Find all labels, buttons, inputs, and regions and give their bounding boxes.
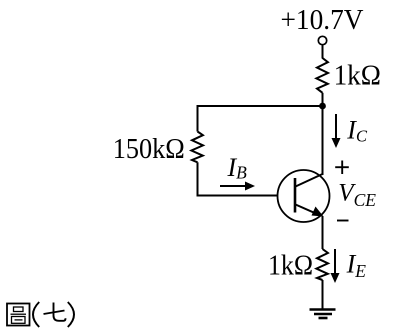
svg-text:IE: IE <box>346 250 367 282</box>
resistor RE 1kOhm (emitter) <box>316 249 328 280</box>
caption glyph 七 <box>44 303 66 321</box>
caption paren ) <box>68 302 74 327</box>
supply terminal <box>318 36 326 44</box>
caption paren ( <box>33 302 39 327</box>
wire: emitter down to RE <box>322 216 324 249</box>
svg-text:IB: IB <box>227 153 248 182</box>
wire: R1 to node <box>322 93 324 106</box>
wire: node to left branch (top horizontal) <box>197 105 323 107</box>
caption glyph 圖 <box>7 304 30 326</box>
wire: RE to ground <box>322 280 324 310</box>
svg-text:150kΩ: 150kΩ <box>113 134 185 165</box>
wire: terminal to R1 <box>322 45 324 59</box>
svg-text:1kΩ: 1kΩ <box>334 61 381 92</box>
ground <box>310 310 336 319</box>
svg-text:IC: IC <box>346 115 368 145</box>
wire: node down to collector <box>322 106 324 175</box>
svg-text:1kΩ: 1kΩ <box>268 251 313 282</box>
caption 圖(七) <box>7 302 74 327</box>
wire: left branch down to RB <box>197 105 199 132</box>
polarity label − <box>337 220 349 222</box>
svg-text:+10.7V: +10.7V <box>281 5 364 36</box>
node: collector junction <box>319 103 326 110</box>
resistor R1 1kOhm (collector) <box>316 58 328 93</box>
wire: RB down to base corner <box>197 162 199 196</box>
current arrow I_C <box>332 114 341 148</box>
svg-text:VCE: VCE <box>338 180 376 210</box>
transistor Q1 (NPN) <box>278 170 330 222</box>
current arrow I_E <box>331 249 340 283</box>
current arrow I_B <box>220 182 255 191</box>
polarity label + <box>335 161 349 175</box>
wire: base corner to transistor base <box>197 195 279 197</box>
resistor RB 150kOhm (base) <box>191 132 203 163</box>
